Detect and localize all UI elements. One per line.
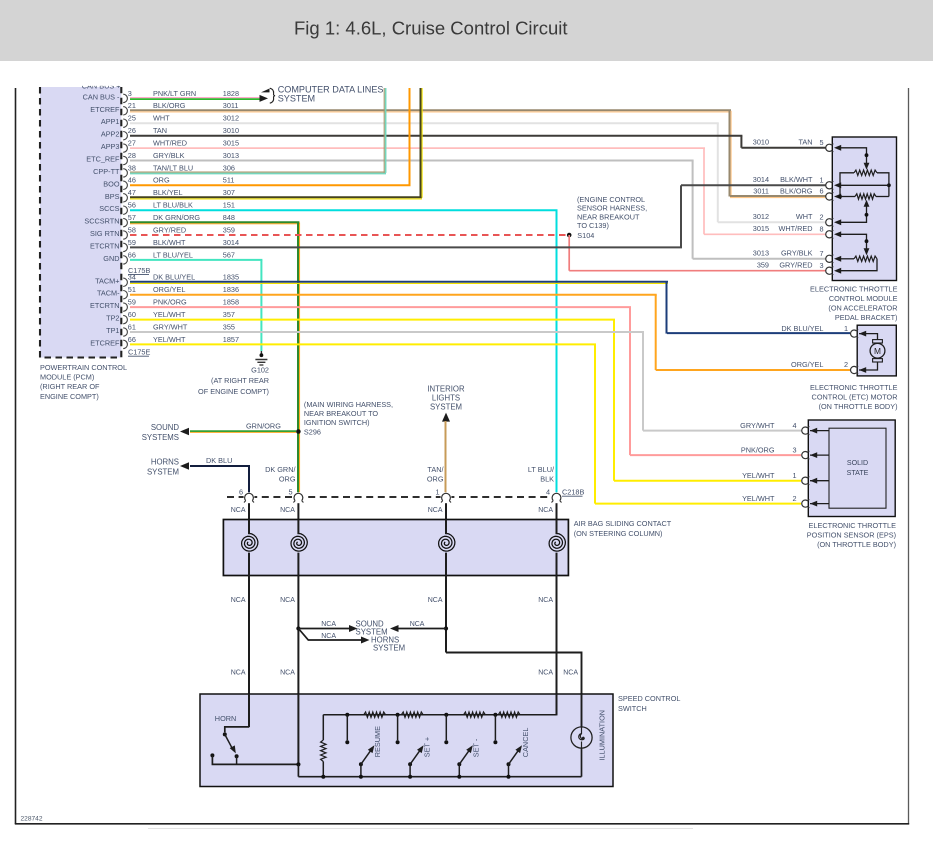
EPS pin 1 — [802, 477, 829, 485]
svg-text:5: 5 — [288, 488, 292, 497]
NCA labels above speed control switch — [231, 670, 579, 677]
svg-text:5: 5 — [819, 138, 823, 147]
svg-text:3012: 3012 — [223, 114, 239, 123]
electronic throttle position sensor box — [808, 420, 895, 517]
svg-text:NCA: NCA — [410, 621, 425, 628]
svg-text:(ON THROTTLE BODY): (ON THROTTLE BODY) — [817, 540, 896, 549]
wire NCA wire 4 inside box — [556, 694, 558, 715]
wire TAN 3010 vertical — [740, 136, 742, 148]
svg-text:TAN/: TAN/ — [427, 465, 444, 474]
svg-text:ELECTRONIC THROTTLE: ELECTRONIC THROTTLE — [810, 285, 898, 294]
wire GRY/BLK 3013 horizontal — [130, 160, 694, 162]
svg-text:NCA: NCA — [280, 507, 295, 514]
svg-text:1835: 1835 — [223, 273, 239, 282]
svg-text:CONTROL (ETC) MOTOR: CONTROL (ETC) MOTOR — [812, 393, 898, 402]
svg-text:BLK/YEL: BLK/YEL — [153, 188, 183, 197]
svg-text:POSITION SENSOR (EPS): POSITION SENSOR (EPS) — [807, 530, 896, 539]
PCM caption — [40, 363, 127, 401]
svg-text:359: 359 — [757, 261, 769, 270]
ETC module pin 6 — [819, 187, 841, 201]
wire LT BLU/YEL 567 vertical — [260, 260, 262, 351]
svg-text:56: 56 — [128, 201, 136, 210]
svg-text:SET +: SET + — [422, 737, 431, 757]
svg-text:NCA: NCA — [321, 621, 336, 628]
switch CANCEL — [507, 745, 523, 778]
svg-text:CAN BUS -: CAN BUS - — [83, 92, 120, 101]
wire GRY/WHT 355 vertical — [642, 332, 644, 431]
svg-text:GRY/RED: GRY/RED — [153, 225, 186, 234]
wire NCA wire 2 below box — [297, 553, 299, 765]
svg-text:NCA: NCA — [231, 670, 246, 677]
svg-text:GRY/WHT: GRY/WHT — [153, 322, 188, 331]
svg-text:ORG: ORG — [279, 474, 296, 483]
wire DK BLU/YEL 1835 to motor pin 1 — [667, 332, 850, 334]
svg-text:GRY/WHT: GRY/WHT — [740, 421, 775, 430]
svg-text:ETC_REF: ETC_REF — [86, 155, 120, 164]
wire PNK/LT GRN 1828 — [130, 98, 260, 99]
svg-text:POWERTRAIN CONTROL: POWERTRAIN CONTROL — [40, 363, 127, 372]
resistor on rail — [364, 712, 386, 717]
ETC motor caption — [810, 383, 898, 411]
wire BLK/ORG 3011 horizontal — [130, 110, 731, 112]
label LT BLU/BLK — [528, 465, 555, 483]
svg-text:PNK/LT GRN: PNK/LT GRN — [153, 89, 196, 98]
rail left leg — [322, 715, 324, 740]
svg-text:NCA: NCA — [428, 597, 443, 604]
svg-text:3015: 3015 — [753, 224, 769, 233]
svg-text:M: M — [874, 346, 881, 356]
svg-text:ELECTRONIC THROTTLE: ELECTRONIC THROTTLE — [810, 383, 898, 392]
wire NCA into air bag contact — [297, 503, 299, 534]
wire NCA stub into coil — [248, 520, 250, 535]
svg-text:1836: 1836 — [223, 285, 239, 294]
svg-text:21: 21 — [128, 101, 136, 110]
svg-text:C175B: C175B — [128, 266, 150, 275]
connector C218B pin bump — [293, 492, 304, 502]
svg-text:ENGINE COMPT): ENGINE COMPT) — [40, 392, 99, 401]
svg-text:DK GRN/: DK GRN/ — [265, 465, 296, 474]
splice S296 — [296, 429, 301, 434]
label engine control sensor harness S104 — [577, 195, 647, 240]
svg-text:BLK/WHT: BLK/WHT — [780, 175, 813, 184]
wire BLK/WHT 3014 horizontal — [130, 246, 682, 248]
wire NCA branch to horns system — [298, 629, 361, 641]
arrow interior lights — [442, 413, 450, 422]
svg-text:BOO: BOO — [103, 179, 120, 188]
wire ORG/YEL 1836 horizontal — [130, 294, 657, 296]
wire NCA wire 1 inside box — [248, 694, 250, 727]
wire GRY/RED 359 vertical — [568, 235, 570, 271]
wire NCA stub into coil — [445, 520, 447, 535]
wire WHT 3012 horizontal — [130, 122, 719, 124]
svg-text:848: 848 — [223, 213, 235, 222]
wire YEL/WHT 1857 to EPS pin 2 — [595, 503, 801, 505]
EPS pin numbers — [792, 421, 796, 503]
svg-text:C218B: C218B — [562, 488, 584, 497]
switch SET + — [408, 745, 424, 778]
ETC module pin 1 — [819, 176, 841, 190]
svg-text:359: 359 — [223, 225, 235, 234]
wire TAN 3010 horizontal — [130, 135, 742, 137]
svg-text:PNK/ORG: PNK/ORG — [153, 298, 187, 307]
connector C218B pin bump — [441, 492, 452, 502]
wire TAN/ORG vertical — [445, 421, 447, 493]
svg-text:GRN/ORG: GRN/ORG — [246, 422, 281, 431]
rail junction and upper contact — [345, 713, 349, 745]
svg-text:(MAIN WIRING HARNESS,: (MAIN WIRING HARNESS, — [304, 400, 393, 409]
svg-text:NCA: NCA — [280, 597, 295, 604]
svg-text:306: 306 — [223, 163, 235, 172]
svg-text:YEL/WHT: YEL/WHT — [742, 494, 775, 503]
switch SET - — [457, 745, 473, 778]
speed control switch box — [200, 694, 613, 787]
svg-text:1828: 1828 — [223, 89, 239, 98]
EPS solid state inner box — [829, 428, 886, 508]
ETC module caption — [810, 285, 898, 323]
svg-text:38: 38 — [128, 163, 136, 172]
svg-text:APP1: APP1 — [101, 117, 120, 126]
label SPEED CONTROL SWITCH — [618, 694, 680, 713]
svg-text:TAN/LT BLU: TAN/LT BLU — [153, 163, 193, 172]
svg-text:357: 357 — [223, 310, 235, 319]
wire NCA wire 4 below box — [556, 553, 558, 716]
svg-text:ILLUMINATION: ILLUMINATION — [598, 710, 607, 761]
bus junction for horn resistor — [321, 775, 325, 779]
svg-text:SYSTEMS: SYSTEMS — [142, 433, 179, 442]
svg-text:DK BLU/YEL: DK BLU/YEL — [153, 273, 195, 282]
svg-text:BLK: BLK — [540, 474, 554, 483]
svg-text:PNK/ORG: PNK/ORG — [741, 445, 775, 454]
wire NCA branch from wire 3 — [399, 628, 447, 630]
arrow sound systems — [180, 428, 189, 435]
air bag caption — [574, 519, 672, 538]
wire TAN 3010 to pin 5 — [741, 147, 825, 149]
wire WHT/RED 3015 horizontal — [130, 147, 705, 149]
svg-text:APP3: APP3 — [101, 142, 120, 151]
powertrain control module PCM box — [40, 87, 121, 358]
svg-text:25: 25 — [128, 114, 136, 123]
wire GRY/WHT 355 horizontal — [130, 331, 644, 333]
svg-text:7: 7 — [819, 249, 823, 258]
wire NCA stub into coil — [297, 520, 299, 535]
svg-text:GND: GND — [103, 254, 119, 263]
ETC motor pin 2 — [851, 366, 867, 374]
svg-text:GRY/BLK: GRY/BLK — [781, 249, 813, 258]
wire PNK/ORG 1858 vertical — [629, 307, 631, 455]
svg-text:3: 3 — [819, 261, 823, 270]
svg-text:60: 60 — [128, 310, 136, 319]
illumination lamp — [571, 727, 592, 777]
resistor rail — [323, 714, 556, 716]
svg-text:WHT/RED: WHT/RED — [778, 224, 812, 233]
label C218B — [562, 488, 584, 497]
EPS caption — [807, 521, 896, 549]
svg-text:S104: S104 — [577, 231, 594, 240]
switch RESUME — [359, 745, 375, 778]
svg-text:YEL/WHT: YEL/WHT — [153, 335, 186, 344]
svg-text:ORG/YEL: ORG/YEL — [153, 285, 185, 294]
svg-text:3012: 3012 — [753, 212, 769, 221]
wire GRY/BLK 3013 to pin 7 — [693, 258, 826, 260]
svg-text:4: 4 — [792, 421, 796, 430]
wire YEL/WHT 1857 vertical — [594, 344, 596, 503]
svg-text:TP1: TP1 — [106, 326, 119, 335]
svg-text:355: 355 — [223, 322, 235, 331]
ETC pot 1 — [838, 148, 891, 199]
svg-text:APP2: APP2 — [101, 130, 120, 139]
svg-text:DK BLU/YEL: DK BLU/YEL — [781, 324, 823, 333]
svg-text:(ON ACCELERATOR: (ON ACCELERATOR — [828, 304, 897, 313]
footer faint rule — [148, 828, 693, 830]
cropped second arrow — [261, 89, 270, 93]
label SOUND SYSTEMS — [142, 423, 180, 442]
svg-text:51: 51 — [128, 285, 136, 294]
wire GRY/BLK 3013 vertical — [692, 161, 694, 259]
wire GRY/RED 359 dashed — [130, 234, 566, 236]
sliding contact coil — [242, 533, 258, 551]
svg-text:46: 46 — [128, 176, 136, 185]
svg-text:307: 307 — [223, 188, 235, 197]
connector C218B dashed line — [227, 496, 557, 498]
wire LT BLU/BLK 151 horizontal — [130, 209, 558, 211]
svg-text:SIG RTN: SIG RTN — [90, 229, 119, 238]
air bag sliding contact box — [223, 520, 568, 576]
C218B pin numbers — [239, 488, 550, 497]
svg-text:BLK/ORG: BLK/ORG — [780, 186, 813, 195]
label DK GRN/ORG — [265, 465, 296, 483]
svg-text:NCA: NCA — [428, 507, 443, 514]
wire WHT/RED 3015 to pin 8 — [704, 233, 826, 235]
svg-text:26: 26 — [128, 126, 136, 135]
svg-text:WHT: WHT — [796, 212, 813, 221]
wire DK BLU/YEL 1835 vertical — [666, 282, 668, 333]
EPS pin 3 — [802, 451, 829, 459]
svg-text:NCA: NCA — [231, 507, 246, 514]
svg-text:SYSTEM: SYSTEM — [278, 94, 315, 104]
svg-text:SENSOR HARNESS,: SENSOR HARNESS, — [577, 204, 647, 213]
wire LT BLU/YEL 567 horizontal — [130, 259, 262, 261]
wire BLK/YEL 307 vertical — [421, 88, 423, 198]
svg-text:2: 2 — [844, 360, 848, 369]
wire BLK/YEL 307 horizontal — [130, 197, 422, 199]
svg-text:SPEED CONTROL: SPEED CONTROL — [618, 694, 680, 703]
svg-text:ETCREF: ETCREF — [90, 338, 120, 347]
wire NCA wire 2 to bottom bus — [297, 764, 299, 776]
svg-text:(AT RIGHT REAR: (AT RIGHT REAR — [211, 376, 269, 385]
svg-text:66: 66 — [128, 250, 136, 259]
junction node wire 2 — [296, 626, 300, 630]
wire GRN/ORG to sound systems — [190, 431, 296, 432]
wire NCA into air bag contact — [445, 503, 447, 534]
svg-text:1: 1 — [792, 471, 796, 480]
wire YEL/WHT 357 vertical — [613, 320, 615, 481]
svg-text:27: 27 — [128, 139, 136, 148]
wire BLK/WHT 3014 to pin 1 — [681, 184, 826, 186]
wire ORG 511 vertical — [409, 88, 411, 185]
svg-text:BLK/ORG: BLK/ORG — [153, 101, 186, 110]
svg-text:GRY/BLK: GRY/BLK — [153, 151, 185, 160]
svg-text:YEL/WHT: YEL/WHT — [742, 471, 775, 480]
arrow to horns system — [361, 637, 370, 644]
svg-text:SYSTEM: SYSTEM — [147, 468, 179, 477]
NCA labels above air bag box — [231, 507, 554, 514]
brace to computer data lines system — [270, 88, 275, 103]
wire NCA into air bag contact — [248, 503, 250, 534]
svg-text:(RIGHT REAR OF: (RIGHT REAR OF — [40, 382, 100, 391]
rail junction and upper contact — [396, 713, 400, 745]
EPS pin 2 — [802, 499, 829, 507]
svg-text:NCA: NCA — [280, 670, 295, 677]
svg-text:3015: 3015 — [223, 139, 239, 148]
svg-text:C175E: C175E — [128, 347, 150, 356]
svg-text:1: 1 — [844, 324, 848, 333]
ETC module pin 3 — [819, 261, 841, 275]
svg-text:3010: 3010 — [753, 138, 769, 147]
wire NCA wire 3 jog to illumination — [446, 653, 582, 728]
svg-text:AIR BAG SLIDING CONTACT: AIR BAG SLIDING CONTACT — [574, 519, 672, 528]
connector C218B pin bump — [551, 492, 562, 502]
label INTERIOR LIGHTS SYSTEM — [427, 385, 465, 412]
svg-text:1: 1 — [819, 176, 823, 185]
wire TAN/LT BLU 306 horizontal — [130, 172, 386, 173]
svg-text:CANCEL: CANCEL — [521, 728, 530, 758]
svg-text:ORG: ORG — [427, 474, 444, 483]
svg-text:57: 57 — [128, 213, 136, 222]
svg-text:8: 8 — [819, 225, 823, 234]
wire WHT 3012 to pin 2 — [718, 221, 826, 223]
electronic throttle control module box — [832, 137, 896, 281]
label HORNS SYSTEM — [147, 458, 179, 477]
svg-text:3011: 3011 — [753, 186, 769, 195]
wire YEL/WHT 1857 horizontal — [130, 343, 596, 345]
resistor on rail — [401, 712, 423, 717]
svg-text:WHT/RED: WHT/RED — [153, 139, 187, 148]
ETC pot 3 — [840, 234, 877, 270]
svg-text:NCA: NCA — [538, 507, 553, 514]
wire BLK/ORG 3011 vertical — [730, 111, 732, 197]
svg-text:1857: 1857 — [223, 335, 239, 344]
page border right — [908, 88, 910, 824]
svg-text:HORNS: HORNS — [151, 458, 179, 467]
svg-text:2: 2 — [819, 213, 823, 222]
wire NCA wire 2 inside box — [297, 694, 299, 765]
svg-text:CPP-TT: CPP-TT — [93, 167, 120, 176]
svg-text:ORG/YEL: ORG/YEL — [791, 360, 823, 369]
wire GRY/WHT 355 to EPS pin 4 — [643, 430, 801, 432]
motor M symbol — [859, 334, 885, 370]
junction node wire 3 — [444, 626, 448, 630]
wire NCA into air bag contact — [556, 503, 558, 534]
svg-text:3014: 3014 — [223, 238, 239, 247]
svg-text:TO C139): TO C139) — [577, 221, 609, 230]
arrow horns system — [180, 462, 189, 469]
svg-text:SOUND: SOUND — [151, 423, 180, 432]
svg-text:DK GRN/ORG: DK GRN/ORG — [153, 213, 200, 222]
svg-text:LT BLU/: LT BLU/ — [528, 465, 555, 474]
wire NCA branch to sound system — [298, 628, 349, 630]
bottom bus — [298, 776, 581, 778]
horn switch — [210, 727, 298, 765]
wire DK BLU/YEL 1835 horizontal — [130, 282, 668, 284]
PCM pin connectors C175B/C175E — [123, 89, 239, 357]
wire BLK/ORG 3011 to pin 6 — [730, 196, 826, 198]
NCA branch labels — [321, 621, 425, 640]
svg-text:G102: G102 — [251, 366, 269, 375]
svg-text:Fig 1: 4.6L, Cruise Control Ci: Fig 1: 4.6L, Cruise Control Circuit — [294, 18, 568, 39]
ETC pot 2 — [840, 194, 889, 223]
svg-text:GRY/RED: GRY/RED — [779, 261, 812, 270]
wire TAN/LT BLU 306 vertical — [384, 88, 385, 173]
svg-text:ELECTRONIC THROTTLE: ELECTRONIC THROTTLE — [809, 521, 897, 530]
svg-text:NCA: NCA — [231, 597, 246, 604]
svg-text:NEAR BREAKOUT: NEAR BREAKOUT — [577, 212, 640, 221]
label COMPUTER DATA LINES SYSTEM — [278, 84, 384, 103]
resistor on rail — [464, 712, 486, 717]
svg-text:4: 4 — [546, 488, 550, 497]
splice S104 — [567, 233, 572, 238]
resistor on rail — [498, 712, 520, 717]
wire DK BLU vertical — [248, 466, 250, 493]
wire WHT/RED 3015 vertical — [703, 148, 705, 234]
svg-text:6: 6 — [819, 187, 823, 196]
svg-text:ETCRTN: ETCRTN — [90, 301, 119, 310]
svg-text:NCA: NCA — [563, 670, 578, 677]
svg-text:TAN: TAN — [798, 138, 812, 147]
sliding contact coil — [549, 533, 565, 551]
svg-text:TP2: TP2 — [106, 314, 119, 323]
svg-text:IGNITION SWITCH): IGNITION SWITCH) — [304, 418, 370, 427]
svg-text:511: 511 — [223, 176, 235, 185]
label SOUND SYSTEM — [356, 620, 388, 637]
label HORNS SYSTEM — [371, 636, 405, 653]
label main wiring harness S296 — [304, 400, 393, 437]
label TAN/ORG — [427, 465, 445, 483]
svg-text:567: 567 — [223, 250, 235, 259]
svg-text:3014: 3014 — [753, 175, 769, 184]
svg-text:WHT: WHT — [153, 114, 170, 123]
svg-text:1858: 1858 — [223, 298, 239, 307]
svg-text:SYSTEM: SYSTEM — [373, 643, 405, 652]
svg-text:HORN: HORN — [215, 714, 237, 723]
page border left — [15, 88, 17, 824]
svg-text:ORG: ORG — [153, 176, 170, 185]
rail junction and upper contact — [493, 713, 497, 745]
wire PNK/ORG 1858 horizontal — [130, 306, 631, 308]
svg-text:BPS: BPS — [105, 192, 120, 201]
svg-text:58: 58 — [128, 225, 136, 234]
svg-text:LIGHTS: LIGHTS — [432, 394, 460, 403]
sliding contact coil — [291, 533, 307, 551]
arrow from wire 3 to sound system — [390, 625, 399, 632]
svg-text:TAN: TAN — [153, 126, 167, 135]
NCA labels below air bag box — [231, 597, 554, 604]
svg-text:SET -: SET - — [472, 738, 481, 757]
label G102 — [198, 366, 269, 396]
svg-text:3: 3 — [792, 445, 796, 454]
svg-text:TACM-: TACM- — [97, 289, 120, 298]
wire DK GRN/ORG 848 horizontal — [130, 222, 299, 224]
svg-text:TACM+: TACM+ — [95, 276, 119, 285]
svg-text:NCA: NCA — [538, 670, 553, 677]
wire DK BLU to horns system — [190, 465, 250, 467]
svg-text:LT BLU/YEL: LT BLU/YEL — [153, 250, 193, 259]
ETC module pin 5 — [819, 138, 841, 152]
wire ORG 511 horizontal — [130, 184, 411, 186]
wire BLK/WHT 3014 vertical — [680, 185, 682, 247]
svg-text:MODULE (PCM): MODULE (PCM) — [40, 373, 94, 382]
wire DK GRN/ORG 848 vertical — [298, 223, 300, 493]
svg-text:OF ENGINE COMPT): OF ENGINE COMPT) — [198, 387, 269, 396]
